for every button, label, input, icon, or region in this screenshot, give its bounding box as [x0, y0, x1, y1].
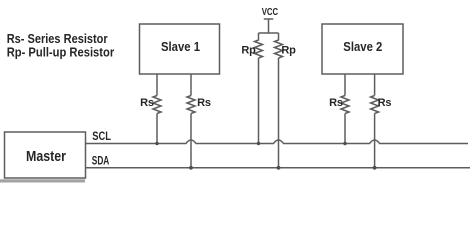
- wire Rp-SCL: [258, 58, 260, 144]
- svg-text:Rp: Rp: [241, 45, 256, 57]
- block Slave 2: [322, 24, 403, 74]
- VCC supply: [262, 7, 279, 19]
- block Master: [0, 132, 86, 183]
- wire Slave1 SDA pin: [190, 74, 192, 96]
- svg-text:Slave 2: Slave 2: [343, 39, 382, 54]
- wire Rs-SCL (Slave1): [156, 114, 158, 144]
- block Slave 1: [140, 24, 220, 74]
- svg-text:SCL: SCL: [92, 129, 111, 143]
- svg-text:SDA: SDA: [92, 154, 110, 168]
- svg-text:Rs: Rs: [197, 97, 211, 109]
- net SDA: [86, 154, 471, 168]
- junction SCL/Rp: [257, 142, 260, 145]
- wire VCC stem: [268, 19, 270, 33]
- resistor Rs (Slave1 SDA): [187, 96, 211, 114]
- resistor Rs (Slave1 SCL): [140, 96, 161, 114]
- net SCL: [86, 129, 469, 144]
- junction SDA/Rs2: [373, 166, 377, 170]
- svg-text:Rs: Rs: [378, 97, 392, 109]
- svg-text:Rs: Rs: [140, 97, 154, 109]
- svg-text:VCC: VCC: [262, 7, 279, 18]
- junction SDA/Rs1: [189, 166, 193, 170]
- resistor Rp (SCL pull-up): [241, 33, 262, 58]
- svg-text:Slave 1: Slave 1: [161, 39, 200, 54]
- junction SDA/Rp: [277, 166, 281, 170]
- wire Slave2 SCL pin: [344, 74, 346, 96]
- junction SCL/Rs2: [343, 142, 346, 145]
- svg-text:Rp: Rp: [281, 45, 296, 57]
- junction SCL/Rs1: [155, 142, 158, 145]
- wire pull-up rail: [259, 32, 279, 34]
- resistor Rp (SDA pull-up): [275, 33, 297, 58]
- svg-text:Rs: Rs: [329, 97, 343, 109]
- legend: [7, 31, 115, 59]
- resistor Rs (Slave2 SCL): [329, 96, 349, 114]
- resistor Rs (Slave2 SDA): [371, 96, 392, 114]
- wire Rp-SDA: [278, 58, 280, 168]
- wire Slave1 SCL pin: [156, 74, 158, 96]
- svg-text:Rp- Pull-up Resistor: Rp- Pull-up Resistor: [7, 44, 115, 59]
- wire Rs-SDA (Slave2): [374, 114, 376, 168]
- wire Rs-SCL (Slave2): [344, 114, 346, 144]
- wire Slave2 SDA pin: [374, 74, 376, 96]
- svg-text:Master: Master: [26, 149, 66, 165]
- wire Rs-SDA (Slave1): [190, 114, 192, 168]
